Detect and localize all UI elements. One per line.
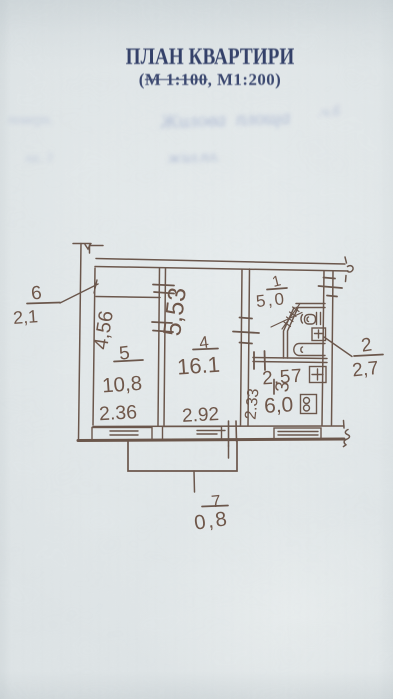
faint handwriting line 1 <box>160 107 291 135</box>
wall between rooms 5 and 4 <box>158 268 160 426</box>
svg-text:2,7: 2,7 <box>351 358 379 382</box>
wall bottom inner <box>93 425 344 428</box>
balcony outline <box>128 439 237 471</box>
underline room 5 <box>114 360 143 362</box>
corner mark top-left <box>73 244 103 254</box>
ticks on wall 4/hall <box>233 318 259 344</box>
dimension ticks on wall 5/4 lower <box>152 322 173 332</box>
underline room 4 <box>193 349 218 350</box>
svg-text:2.33: 2.33 <box>242 388 262 421</box>
balcony leader line <box>193 471 196 492</box>
svg-text:5,0: 5,0 <box>255 289 287 311</box>
washbasin <box>312 328 326 341</box>
underline room 1 <box>267 288 287 290</box>
wall right outer <box>332 271 334 425</box>
wall bottom outer (thick) <box>78 439 344 441</box>
stove <box>301 395 317 414</box>
svg-text:3: 3 <box>272 381 294 393</box>
underline room 3 (vertical) <box>273 380 275 395</box>
title <box>35 44 386 70</box>
underline room 7 <box>202 506 228 507</box>
leader room 2 <box>324 337 352 357</box>
bathtub <box>294 344 325 356</box>
svg-text:6: 6 <box>30 283 43 305</box>
wall between room 4 and hall <box>241 270 243 427</box>
underline room 6 <box>27 303 60 304</box>
leader room 6 <box>60 280 98 303</box>
wall left outer <box>79 244 82 440</box>
subtitle <box>2 70 393 90</box>
svg-text:2.92: 2.92 <box>182 404 220 427</box>
faint handwriting left margin <box>8 112 54 129</box>
dimension ticks on wall 5/4 upper <box>153 285 174 294</box>
window room 4 <box>163 427 226 440</box>
wall bathroom/kitchen <box>253 358 327 359</box>
bathroom door (hatched) <box>282 304 300 330</box>
window kitchen <box>274 428 321 440</box>
underline room 2 <box>354 355 383 357</box>
break squiggle bottom right <box>343 421 349 447</box>
break squiggle top right <box>345 257 353 282</box>
bathroom bent wall <box>284 308 295 359</box>
kitchen sink <box>310 367 327 383</box>
toilet <box>301 313 321 325</box>
door swing line <box>271 313 302 328</box>
faint handwriting line 1b <box>318 103 341 121</box>
svg-text:2,1: 2,1 <box>12 306 38 328</box>
svg-text:16.1: 16.1 <box>176 352 220 380</box>
balcony inner tick <box>228 446 230 458</box>
faint handwriting line 2 <box>167 148 220 168</box>
svg-text:2.36: 2.36 <box>99 401 138 425</box>
svg-text:10,8: 10,8 <box>101 372 142 398</box>
window room 5 <box>92 428 152 441</box>
svg-text:5: 5 <box>118 343 131 365</box>
balcony door jambs <box>229 421 237 446</box>
svg-text:5,53: 5,53 <box>158 286 192 338</box>
wall top outer <box>96 259 345 265</box>
wall right inner <box>322 271 324 426</box>
wall top inner <box>95 267 348 272</box>
ticks on right wall <box>319 278 343 297</box>
wall left inner <box>93 268 95 425</box>
wall hall/bathroom <box>296 303 325 305</box>
svg-text:0,8: 0,8 <box>193 507 230 535</box>
closet 6 bottom line <box>96 297 160 298</box>
ticks on kitchen wall <box>254 351 265 370</box>
svg-text:6,0: 6,0 <box>263 393 293 417</box>
